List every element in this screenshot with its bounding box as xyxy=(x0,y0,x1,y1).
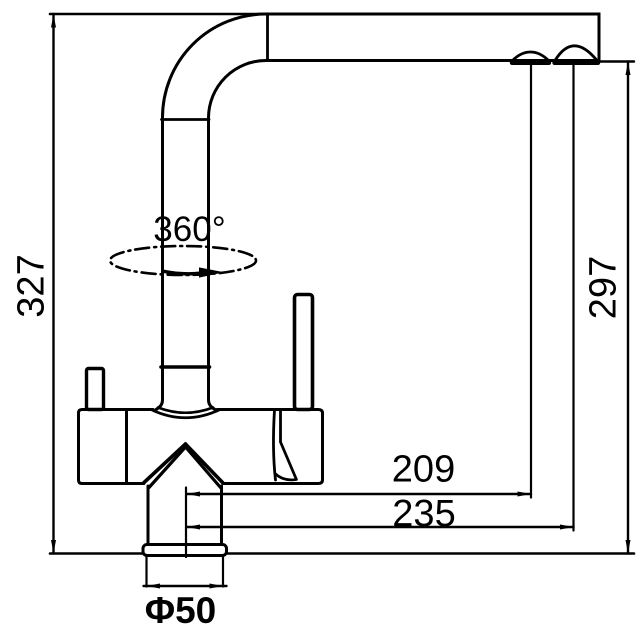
top extension line xyxy=(50,13,267,16)
spout pipe joint line xyxy=(161,365,210,369)
spout bend joint line xyxy=(266,14,269,61)
dimension 327 line xyxy=(51,14,56,554)
dimension phi50 xyxy=(144,557,227,589)
dimension 235 line xyxy=(187,525,574,530)
V funnel left side xyxy=(144,444,186,488)
body joint line left xyxy=(125,410,128,484)
rotation ellipse 360 xyxy=(110,246,256,278)
pipe-to-body saddle arcs xyxy=(151,408,220,418)
left handle xyxy=(87,369,104,410)
witness line 235 xyxy=(572,64,574,531)
spout tube outline xyxy=(156,14,599,410)
label phi50 xyxy=(145,590,217,631)
svg-text:297: 297 xyxy=(583,256,625,319)
svg-text:209: 209 xyxy=(392,449,455,491)
body joint curve right xyxy=(273,410,275,480)
svg-text:Φ50: Φ50 xyxy=(145,590,217,631)
faucet body outline xyxy=(79,410,323,484)
label 235 xyxy=(392,493,455,535)
baseline extension xyxy=(50,552,634,555)
label 209 xyxy=(392,449,455,491)
witness line 209 xyxy=(530,64,532,498)
diverter edge and diagonal xyxy=(275,410,297,480)
svg-text:235: 235 xyxy=(392,493,455,535)
label 297 xyxy=(583,256,625,319)
svg-text:360°: 360° xyxy=(153,210,225,249)
svg-text:327: 327 xyxy=(11,254,53,317)
label 360 xyxy=(153,210,225,249)
V funnel right side xyxy=(186,444,224,488)
base pipe xyxy=(148,486,222,544)
base flange xyxy=(143,545,227,556)
right handle xyxy=(295,295,313,410)
spout bend lower joint line xyxy=(162,118,210,121)
dimension 297 line xyxy=(597,62,634,554)
label 327 xyxy=(11,254,53,317)
witness line center xyxy=(185,488,187,558)
aerator bump 2 xyxy=(555,46,599,63)
aerator bump 1 xyxy=(512,52,549,63)
dimension 209 line xyxy=(187,492,532,497)
